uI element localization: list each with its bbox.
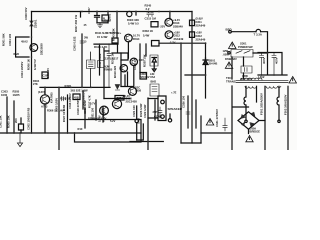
svg-text:(13V) R317: (13V) R317 bbox=[104, 57, 119, 61]
wire col x83 bbox=[82, 91, 84, 109]
wire H rail 87 bbox=[40, 86, 110, 88]
terminal circle B bbox=[168, 119, 171, 122]
resistor R303 bbox=[19, 124, 24, 130]
svg-text:400V: 400V bbox=[262, 57, 266, 64]
wire x-cap rail bbox=[258, 53, 287, 76]
svg-text:2458: 2458 bbox=[135, 89, 141, 93]
wire H 143 bbox=[181, 142, 201, 144]
svg-text:(5.6)V: (5.6)V bbox=[196, 17, 204, 21]
wire bus right bbox=[201, 132, 232, 134]
svg-text:R324 4.7K: R324 4.7K bbox=[102, 109, 106, 122]
svg-text:2047 400V: 2047 400V bbox=[240, 77, 253, 81]
wire col x188 bbox=[187, 96, 189, 128]
fuse F302 bbox=[277, 86, 279, 120]
svg-text:27K: 27K bbox=[33, 82, 38, 86]
terminal BFO bbox=[229, 30, 232, 33]
transistor Q311 bbox=[130, 58, 137, 65]
wire col x85 bbox=[84, 108, 86, 128]
svg-text:C321 100: C321 100 bbox=[132, 105, 136, 117]
wire speaker leads bbox=[148, 99, 158, 119]
svg-text:+18V: +18V bbox=[196, 31, 203, 35]
svg-text:BFO: BFO bbox=[226, 28, 233, 32]
wire col x99 bbox=[99, 44, 101, 75]
wire CRD stubs bbox=[243, 57, 245, 79]
wire mid H 98.5 bbox=[104, 98, 130, 100]
svg-text:R300 33K: R300 33K bbox=[127, 18, 139, 22]
terminal F302 end bbox=[278, 120, 280, 122]
wire left bias loop bbox=[16, 37, 29, 57]
diode D306 bbox=[115, 85, 120, 91]
svg-text:2SD2638: 2SD2638 bbox=[40, 43, 44, 55]
arrow down A bbox=[152, 64, 156, 72]
svg-text:S301: S301 bbox=[240, 42, 247, 46]
svg-text:2SB949: 2SB949 bbox=[173, 24, 183, 28]
capacitor C311 bbox=[107, 44, 111, 87]
wire fuse to corner bbox=[261, 32, 268, 53]
warning triangle 1 power bbox=[229, 42, 237, 49]
transistor Q307 small bbox=[127, 11, 132, 16]
wire small loop bbox=[137, 124, 144, 140]
resistor boxed B+ bbox=[152, 41, 160, 47]
fuse F300 bbox=[256, 29, 261, 31]
wire left main vertical bbox=[31, 12, 33, 134]
regulator block C306 bbox=[42, 72, 48, 79]
svg-text:2SA949: 2SA949 bbox=[196, 38, 206, 42]
svg-text:T 3.3A: T 3.3A bbox=[254, 33, 262, 37]
svg-text:C318 47/50V: C318 47/50V bbox=[76, 99, 80, 115]
transistor Q301 bbox=[30, 44, 38, 52]
svg-text:BHD: BHD bbox=[151, 80, 157, 84]
diode D301 boxed bbox=[102, 12, 109, 23]
bridge rectifier D309 bbox=[238, 112, 259, 129]
transformer secondary winding 1 bbox=[245, 86, 256, 88]
svg-text:F302 3/5A/250V: F302 3/5A/250V bbox=[284, 94, 288, 115]
svg-text:C305 1/50V: C305 1/50V bbox=[55, 98, 59, 112]
svg-text:R333 1K: R333 1K bbox=[143, 29, 154, 33]
wire main top bus bbox=[32, 11, 193, 13]
svg-text:KIA7805: KIA7805 bbox=[50, 92, 54, 103]
resistor R328 box bbox=[73, 94, 80, 100]
transformer T301 core bbox=[236, 81, 288, 83]
svg-text:1/4W: 1/4W bbox=[98, 115, 102, 122]
svg-text:+.7E: +.7E bbox=[171, 91, 177, 95]
wire col x96 bbox=[95, 100, 97, 120]
transistor Q310 bbox=[125, 34, 133, 42]
wire primary left bbox=[231, 57, 233, 79]
ground bbox=[17, 133, 22, 147]
svg-text:-2.2V: -2.2V bbox=[169, 40, 176, 44]
wire Q305 stub bbox=[169, 12, 171, 19]
wire terminal B stub bbox=[169, 114, 171, 119]
terminal 12W bbox=[228, 52, 230, 54]
svg-text:45A2: 45A2 bbox=[21, 40, 28, 44]
wire bridge bottom stub bbox=[248, 129, 250, 133]
svg-text:COM1: COM1 bbox=[154, 115, 162, 119]
wire H 75 bbox=[185, 74, 206, 76]
capacitor C317 ticks bbox=[62, 97, 66, 101]
svg-text:R323 1K: R323 1K bbox=[60, 97, 71, 101]
svg-text:C315 1M: C315 1M bbox=[145, 17, 157, 21]
svg-text:C322 1/4W: C322 1/4W bbox=[143, 104, 147, 118]
wire switch to rail bbox=[253, 52, 268, 54]
wire col x201 bbox=[200, 116, 202, 143]
svg-text:400V: 400V bbox=[275, 57, 279, 64]
wire col x181 bbox=[180, 43, 182, 143]
box LIN U302 bbox=[150, 84, 159, 96]
capacitor C333 bbox=[272, 53, 276, 76]
wire bridge right corner bbox=[259, 120, 265, 122]
terminal circle A bbox=[135, 119, 138, 122]
svg-text:C311 0.022: C311 0.022 bbox=[98, 53, 102, 68]
capacitor CRD box bbox=[241, 66, 252, 73]
wire BFO line bbox=[231, 31, 256, 33]
svg-text:220/16V: 220/16V bbox=[140, 75, 150, 79]
capacitor C326 ticks bbox=[186, 112, 190, 114]
wire secondary right long bbox=[264, 86, 266, 150]
wire loop under C307 bbox=[97, 22, 108, 24]
transformer secondary winding 2 bbox=[266, 86, 281, 88]
warning triangle 4 speaker area bbox=[206, 119, 214, 126]
svg-text:DSW/58V: DSW/58V bbox=[225, 57, 237, 61]
svg-text:4.2V: 4.2V bbox=[139, 58, 145, 62]
svg-text:TRANS: TRANS bbox=[226, 79, 236, 83]
wire secondary 1b bbox=[256, 86, 258, 102]
wire col x121 bbox=[120, 60, 122, 86]
svg-text:200: 200 bbox=[14, 118, 18, 123]
wire R330 stubs bbox=[90, 52, 92, 87]
resistor R318 box bbox=[151, 22, 158, 27]
diode D316 bbox=[203, 58, 208, 65]
wire col x196 bbox=[195, 100, 197, 128]
svg-text:R319 220: R319 220 bbox=[113, 65, 117, 78]
svg-text:1000: 1000 bbox=[1, 93, 8, 97]
svg-text:78M05: 78M05 bbox=[104, 68, 113, 72]
wire R307 stub bbox=[80, 12, 82, 18]
svg-text:R&B: R&B bbox=[14, 53, 20, 56]
svg-text:100/16V: 100/16V bbox=[46, 68, 50, 78]
svg-text:C305 0.022: C305 0.022 bbox=[73, 36, 77, 51]
svg-text:R327 10 1/4W: R327 10 1/4W bbox=[62, 104, 66, 122]
svg-text:10/25: 10/25 bbox=[13, 93, 20, 97]
svg-text:C331 470/50V: C331 470/50V bbox=[215, 109, 219, 127]
wire bus A bottom bbox=[0, 132, 141, 134]
diode D317 bbox=[152, 58, 157, 65]
speaker connector J301 bbox=[158, 96, 166, 121]
fuse F301 bbox=[244, 86, 246, 120]
svg-text:C304 10/50V: C304 10/50V bbox=[20, 62, 24, 78]
wire Q302 stubs bbox=[44, 87, 46, 133]
resistor R331 box bbox=[98, 61, 105, 68]
svg-text:R326 1/4W: R326 1/4W bbox=[139, 103, 143, 117]
svg-text:R312: R312 bbox=[105, 19, 112, 23]
svg-text:(13V): (13V) bbox=[38, 90, 45, 94]
transistor Q312 bbox=[120, 65, 127, 72]
box D317 outline bbox=[150, 55, 158, 66]
zener ZD301 bbox=[30, 21, 34, 26]
capacitor C314 pair bbox=[147, 12, 154, 17]
svg-text:3W: 3W bbox=[84, 36, 88, 40]
svg-text:R305 10K: R305 10K bbox=[7, 115, 11, 128]
diode D311 boxed bbox=[190, 20, 195, 26]
wire top-right corner vertical bbox=[191, 12, 193, 144]
svg-text:6057: 6057 bbox=[117, 96, 123, 100]
svg-text:C307: C307 bbox=[87, 7, 91, 14]
svg-text:39-04B: 39-04B bbox=[209, 62, 218, 66]
capacitor C332 bbox=[259, 53, 263, 76]
svg-text:12W: 12W bbox=[223, 49, 229, 53]
wire col x117 bbox=[116, 12, 118, 39]
capacitor C305 ticks bbox=[80, 41, 84, 43]
warning triangle 3 transformer bbox=[289, 77, 297, 84]
transformer primary winding bbox=[241, 78, 262, 80]
svg-text:2SA949: 2SA949 bbox=[174, 37, 184, 41]
svg-text:2SA949: 2SA949 bbox=[196, 24, 206, 28]
resistor R315 box bbox=[112, 38, 118, 43]
svg-text:C316 10/50V: C316 10/50V bbox=[68, 93, 72, 109]
switch S301 box bbox=[231, 50, 253, 58]
svg-text:D312: D312 bbox=[196, 34, 203, 38]
wire web mid block bbox=[104, 42, 146, 99]
svg-text:POWER SW: POWER SW bbox=[238, 45, 253, 49]
svg-text:R313 4.7K: R313 4.7K bbox=[94, 45, 107, 49]
svg-text:.05W: .05W bbox=[223, 53, 230, 57]
svg-text:R314: R314 bbox=[133, 37, 140, 41]
wire bridge feed left bbox=[232, 86, 249, 150]
wire left col x7 bbox=[6, 97, 8, 133]
svg-text:R306 1K: R306 1K bbox=[27, 59, 31, 70]
svg-text:C336 220P: C336 220P bbox=[83, 100, 87, 114]
svg-text:A733: A733 bbox=[41, 104, 48, 108]
transistor Q306 bbox=[165, 31, 173, 39]
svg-text:R10: R10 bbox=[78, 127, 83, 131]
svg-text:R321 100: R321 100 bbox=[91, 107, 95, 120]
svg-text:C304 100: C304 100 bbox=[8, 33, 12, 46]
resistor R330 box bbox=[87, 60, 96, 69]
svg-text:1/4W 5V: 1/4W 5V bbox=[33, 59, 37, 70]
svg-text:1/4W 0.5: 1/4W 0.5 bbox=[128, 22, 139, 26]
svg-text:25P: 25P bbox=[153, 110, 158, 114]
wire left col x14 lower bbox=[13, 101, 15, 133]
wire col x205 bbox=[205, 43, 207, 98]
wire H 45.5 left stub bbox=[94, 43, 118, 45]
wire col x67b bbox=[67, 95, 69, 133]
wire far right long bbox=[287, 86, 289, 150]
wire col x59 bbox=[58, 87, 60, 150]
wire mid col x82 bbox=[81, 34, 83, 87]
svg-text:BRIDGE: BRIDGE bbox=[250, 130, 261, 134]
svg-text:C309 50V: C309 50V bbox=[24, 7, 28, 20]
capacitor C307 on top bus bbox=[95, 12, 100, 23]
svg-text:D311: D311 bbox=[196, 20, 203, 24]
resistor R319 box bbox=[121, 53, 128, 60]
transistor Q304 bbox=[100, 106, 109, 115]
svg-text:2.2: 2.2 bbox=[146, 7, 150, 11]
wire col x148 bbox=[147, 98, 149, 150]
wire col x155 bbox=[154, 100, 156, 120]
svg-text:R328: R328 bbox=[65, 84, 72, 88]
svg-text:C313 470: C313 470 bbox=[133, 57, 137, 70]
svg-text:ZD301: ZD301 bbox=[34, 19, 38, 28]
svg-text:C326 100: C326 100 bbox=[182, 95, 186, 108]
capacitor C320 bbox=[158, 107, 162, 118]
wire col x103b bbox=[102, 107, 104, 122]
transistor Q303 bbox=[112, 99, 121, 108]
ground 2 bbox=[98, 23, 103, 28]
warning triangle 2 bbox=[225, 62, 233, 68]
svg-text:C301 10K: C301 10K bbox=[0, 115, 3, 128]
svg-text:F301 3/20A/250V: F301 3/20A/250V bbox=[260, 93, 264, 115]
svg-text:5.2V: 5.2V bbox=[110, 119, 116, 123]
svg-text:GND: GND bbox=[137, 118, 141, 124]
svg-text:15 1/4W: 15 1/4W bbox=[97, 35, 108, 39]
svg-text:R301 56K: R301 56K bbox=[2, 33, 6, 46]
svg-text:R307 330 1W: R307 330 1W bbox=[74, 15, 78, 32]
wire H mid 44 bbox=[159, 42, 206, 44]
wire col x136 stub bbox=[135, 12, 137, 16]
svg-text:0.7V: 0.7V bbox=[90, 102, 96, 106]
svg-text:1/4W: 1/4W bbox=[143, 34, 150, 38]
svg-text:-22V: -22V bbox=[160, 25, 166, 29]
svg-text:2SC2458: 2SC2458 bbox=[126, 100, 138, 104]
capacitor C303 box bbox=[140, 73, 147, 80]
svg-text:L302: L302 bbox=[258, 75, 265, 79]
wire col x136 bbox=[136, 106, 138, 140]
resistor R322 box bbox=[115, 96, 124, 101]
terminal F301 end bbox=[245, 120, 247, 122]
wire bottom loop bbox=[70, 120, 141, 143]
capacitor C331 bbox=[223, 118, 227, 131]
transistor Q313 bbox=[128, 87, 136, 95]
transistor Q305 bbox=[165, 18, 173, 26]
svg-text:VA3: VA3 bbox=[150, 75, 156, 79]
wire H 141.5 bbox=[130, 141, 163, 143]
diode D312 boxed bbox=[190, 32, 195, 38]
warning triangle 5 bridge bbox=[246, 136, 253, 142]
transistor Q302 bbox=[40, 95, 49, 104]
svg-text:C302 100/25V R3: C302 100/25V R3 bbox=[27, 107, 31, 130]
